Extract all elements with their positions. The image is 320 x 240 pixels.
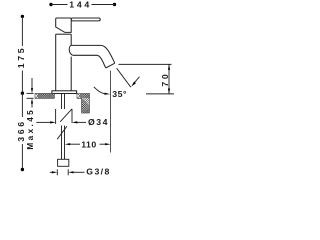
supply pipe lower right line: [64, 126, 66, 160]
threaded shank left line: [55, 109, 57, 124]
svg-text:35°: 35°: [112, 89, 127, 99]
G3/8 right extension tick: [67, 169, 69, 175]
threaded shank right line: [71, 109, 73, 123]
35° left arrowhead (right): [104, 93, 110, 95]
svg-text:144: 144: [69, 0, 92, 10]
G3/8 left extension tick: [56, 169, 58, 175]
svg-text:70: 70: [160, 72, 170, 87]
dimension 70: bottom arrowhead (down): [168, 89, 170, 94]
shank diagonal break line: [60, 109, 72, 122]
Max.45 upper leader line: [31, 78, 33, 89]
supply pipe lower left line: [61, 126, 63, 160]
35° left curved leader: [94, 87, 105, 94]
faucet handle base (body top with slanted parting line): [56, 18, 71, 32]
spout upper contour: [71, 45, 115, 63]
35° right arrowhead (down-left): [131, 82, 136, 87]
G3/8 left arrowhead (right): [52, 171, 57, 173]
deck left hatched block: [35, 94, 54, 99]
35° right leader line: [134, 77, 139, 83]
faucet base plate: [52, 91, 77, 94]
supply pipe upper right line: [64, 94, 66, 110]
dimension 110: right line: [100, 143, 106, 145]
supply pipe upper left line: [61, 94, 63, 110]
Max.45 lower arrowhead (up): [31, 98, 33, 103]
svg-text:110: 110: [81, 139, 97, 149]
faucet lever handle: [71, 18, 100, 21]
G3/8 left tail line: [50, 171, 52, 173]
svg-text:Max.45: Max.45: [26, 108, 35, 150]
dimension 70: vertical line: [168, 64, 170, 94]
left dimension line: segment below 366 label: [21, 144, 23, 170]
left dimension line: middle dot: [21, 92, 24, 95]
dimension 110: right arrowhead: [105, 143, 110, 145]
dimension 70: top arrowhead (up): [168, 64, 170, 69]
dimension 110: left line: [70, 143, 80, 145]
G3/8 connector nut: [58, 159, 69, 166]
G3/8 right tail line: [74, 171, 85, 173]
spout outlet face: [106, 63, 115, 68]
spout lower contour: [73, 55, 106, 68]
dimension 144 top: left dot: [49, 3, 52, 6]
Max.45 lower leader line: [31, 104, 33, 108]
dimension 144 top: line left segment: [51, 4, 68, 6]
spout rounded rear cap: [69, 45, 73, 55]
dimension 70: outlet-level extension line: [119, 63, 172, 65]
pipe diagonal break line: [57, 126, 67, 139]
svg-text:G3/8: G3/8: [86, 166, 110, 176]
faucet body neck joint line: [56, 33, 71, 35]
dimension Ø34: left arrowhead: [50, 121, 55, 123]
dimension 110: left arrowhead: [65, 143, 70, 145]
35° vertical reference line from outlet: [110, 71, 112, 153]
left dimension line: segment above 175 label: [21, 16, 23, 46]
faucet body left side: [55, 34, 57, 91]
dimension 144 top: line right segment: [92, 4, 115, 6]
left dimension line: top dot: [21, 15, 24, 18]
left dimension line: segment above 366 label: [21, 93, 23, 117]
faucet body right side upper (above spout): [70, 34, 72, 45]
dimension 70: deck-level extension line: [146, 93, 174, 95]
35° diagonal stream line: [117, 68, 131, 87]
svg-text:175: 175: [16, 46, 26, 69]
G3/8 right arrowhead (left): [68, 171, 73, 173]
svg-text:Ø34: Ø34: [88, 117, 109, 127]
deck right hatched block (stepped): [77, 93, 89, 113]
left dimension line: segment below 175 label: [21, 71, 23, 94]
left dimension line: bottom dot: [21, 168, 24, 171]
dimension 144 top: right dot: [113, 3, 116, 6]
Max.45 upper arrowhead (down): [31, 88, 33, 93]
faucet body right side lower (below spout): [70, 57, 72, 91]
dimension Ø34: right arrowhead: [72, 121, 77, 123]
dimension Ø34: left leader line: [36, 121, 50, 123]
svg-text:366: 366: [16, 119, 26, 142]
Max.45 lower extension line (deck bottom): [27, 97, 34, 99]
Max.45 upper extension line (deck top): [27, 92, 34, 94]
dimension Ø34: right leader line: [77, 121, 86, 123]
